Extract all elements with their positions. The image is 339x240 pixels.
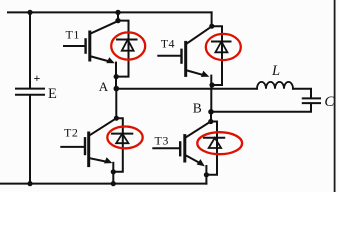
svg-text:T4: T4: [161, 36, 175, 50]
transistor T2 collector slant: [90, 119, 115, 135]
wire T4 diode branch: [212, 26, 222, 85]
transistor T4 collector slant: [187, 27, 212, 44]
wire T2 diode branch: [113, 118, 123, 172]
wire capacitor C to node B line: [211, 104, 311, 112]
node T3 collector/diode junction: [208, 119, 213, 124]
highlight ellipse around D3: [197, 132, 242, 154]
wire top rail corner down to T4: [211, 12, 213, 26]
transistor T1 emitter slant: [91, 56, 110, 61]
transistor T1 emitter arrow: [106, 57, 115, 63]
wire T3 diode branch: [206, 122, 217, 175]
diode D1: [117, 40, 137, 51]
node E/bottom-rail junction: [27, 181, 32, 186]
wire top rail: [8, 11, 212, 13]
svg-text:T1: T1: [66, 28, 80, 42]
wire T1 diode branch: [116, 21, 128, 77]
transistor T3 collector slant: [186, 122, 210, 138]
transistor T4 emitter slant: [187, 70, 204, 75]
wire bottom rail: [0, 183, 206, 185]
transistor T4 gate bar: [180, 50, 182, 63]
capacitor C top plate: [303, 97, 320, 99]
transistor T2 emitter arrow: [104, 157, 112, 163]
node A: [114, 86, 120, 92]
capacitor C bottom plate: [303, 102, 320, 104]
transistor T4 body bar: [184, 42, 187, 75]
wire node A to T2 collector: [115, 89, 117, 119]
svg-text:T3: T3: [155, 134, 169, 148]
wire top rail to T1 collector: [117, 12, 119, 20]
node T4 emitter/diode junction: [209, 82, 214, 87]
node T2/bottom-rail junction: [111, 181, 116, 186]
node T2 collector/diode junction: [114, 116, 119, 121]
wire T3 emitter to bottom rail corner: [205, 166, 207, 184]
node top-rail/E junction: [27, 10, 32, 15]
border line right edge: [334, 0, 336, 192]
diode D4: [212, 42, 231, 53]
wire T2 emitter to bottom rail: [112, 163, 114, 184]
svg-text:E: E: [48, 86, 57, 102]
node T1 collector/diode junction: [115, 18, 120, 23]
transistor T3 body bar: [183, 136, 186, 161]
capacitor E bottom plate: [16, 94, 44, 96]
svg-text:B: B: [193, 100, 202, 115]
transistor T1 body bar: [88, 32, 91, 60]
wire T4 emitter to node B: [210, 76, 212, 112]
svg-text:+: +: [34, 71, 41, 85]
transistor T2 gate bar: [84, 138, 86, 154]
transistor T3 gate bar: [179, 142, 181, 155]
transistor T4 gate lead: [158, 55, 180, 57]
svg-text:T2: T2: [64, 126, 78, 140]
transistor T3 emitter slant: [186, 155, 201, 163]
wire node B to T3 collector: [210, 112, 212, 122]
wire node A to inductor: [116, 88, 257, 90]
node top-rail/T1 junction: [115, 10, 120, 15]
highlight ellipse around D2: [107, 126, 142, 148]
capacitor E top plate: [16, 88, 44, 90]
node T4 collector/diode junction: [209, 24, 214, 29]
transistor T3 gate lead: [153, 147, 179, 149]
node T1 emitter/diode junction: [114, 74, 119, 79]
transistor T2 body bar: [87, 133, 90, 166]
highlight ellipse around D4: [206, 34, 241, 60]
node B: [208, 109, 214, 115]
highlight ellipse around D1: [111, 32, 145, 59]
node T3 emitter/diode junction: [204, 172, 209, 177]
wire T1 emitter to node A: [115, 63, 117, 89]
transistor T1 collector slant: [91, 21, 118, 33]
svg-text:L: L: [271, 63, 280, 79]
wire E to bottom rail: [29, 96, 31, 184]
inductor L: [257, 82, 293, 89]
svg-text:A: A: [99, 79, 109, 94]
diode D3: [204, 138, 224, 148]
transistor T4 emitter arrow: [201, 71, 209, 77]
transistor T1 gate lead: [64, 45, 85, 47]
transistor T3 emitter arrow: [197, 159, 205, 166]
wire top rail to E branch: [29, 12, 31, 87]
transistor T2 gate lead: [61, 146, 84, 148]
diode D2: [112, 134, 132, 144]
node T2 emitter/diode junction: [111, 169, 116, 174]
wire inductor to capacitor C: [293, 89, 311, 98]
transistor T1 gate bar: [84, 39, 86, 52]
transistor T2 emitter slant: [90, 158, 107, 162]
